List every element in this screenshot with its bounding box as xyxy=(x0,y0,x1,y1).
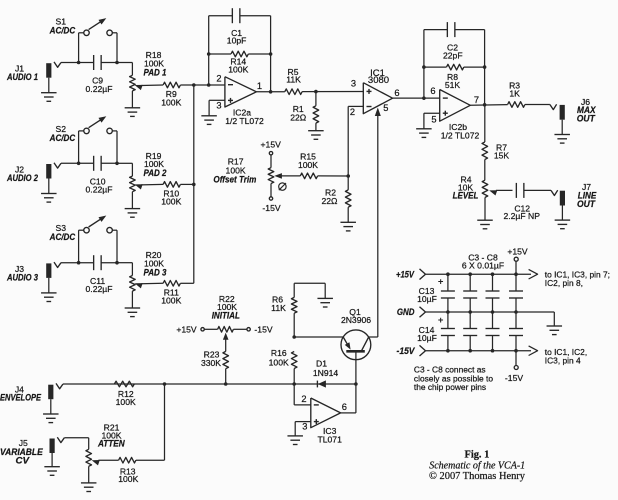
node R14-left xyxy=(207,52,211,56)
switch S3 AC/DC xyxy=(78,230,80,263)
ground under R18 xyxy=(125,107,140,109)
ground R6 xyxy=(317,297,333,299)
node col2 rails xyxy=(468,272,472,276)
node R23-bus xyxy=(224,382,228,386)
svg-text:-15V: -15V xyxy=(505,373,523,383)
svg-text:3080: 3080 xyxy=(368,75,389,86)
svg-text:3: 3 xyxy=(216,101,221,111)
svg-text:AC/DC: AC/DC xyxy=(49,133,76,143)
ground under R2 xyxy=(340,221,356,223)
wire IC2a pin3 to ground xyxy=(209,99,225,101)
svg-text:5: 5 xyxy=(383,103,388,113)
svg-text:15K: 15K xyxy=(494,151,510,161)
wire jack to node xyxy=(61,162,94,164)
jack J1 (AUDIO 1) xyxy=(46,63,51,77)
svg-text:+15V: +15V xyxy=(261,140,282,150)
svg-text:100K: 100K xyxy=(161,97,181,107)
node IC2a-out xyxy=(269,90,273,94)
chevron -15V rail xyxy=(420,345,426,356)
ground under J4 xyxy=(50,399,52,414)
svg-text:10µF: 10µF xyxy=(417,333,437,343)
resistor R7 15K xyxy=(484,105,486,142)
capacitor column C13/C14 lower xyxy=(447,312,449,329)
pot R19 (PAD 2) xyxy=(117,162,132,164)
capacitor C11 0.22µF xyxy=(93,255,95,270)
capacitor C9 0.22µF xyxy=(93,55,95,70)
wire IC2b pin5 to ground xyxy=(424,112,440,114)
jack J6 MAX OUT xyxy=(560,105,565,120)
pot R20 (PAD 3) xyxy=(117,262,132,264)
svg-text:OUT: OUT xyxy=(577,113,596,123)
svg-text:GND: GND xyxy=(397,307,415,317)
svg-text:100K: 100K xyxy=(228,64,248,74)
node J3-b xyxy=(115,261,119,265)
resistor R9 100K xyxy=(163,82,180,88)
wire IC2a output xyxy=(256,91,284,93)
svg-text:-15V: -15V xyxy=(254,325,272,335)
wire IC2b output xyxy=(470,104,507,107)
svg-text:1K: 1K xyxy=(509,89,520,99)
svg-text:PAD 1: PAD 1 xyxy=(144,67,167,77)
ground under J3 xyxy=(48,278,50,293)
svg-text:AUDIO 2: AUDIO 2 xyxy=(6,173,38,183)
node R15/R2 xyxy=(346,174,350,178)
resistor R3 1K xyxy=(508,102,525,108)
resistor R2 22ohm xyxy=(347,176,349,190)
svg-text:TL071: TL071 xyxy=(318,434,343,444)
svg-text:OUT: OUT xyxy=(577,199,596,209)
svg-text:+15V: +15V xyxy=(176,325,197,335)
pot R17 100K Offset Trim xyxy=(269,152,272,155)
svg-text:100K: 100K xyxy=(298,160,318,170)
svg-text:2: 2 xyxy=(350,107,355,117)
svg-text:1/2 TL072: 1/2 TL072 xyxy=(441,131,480,141)
svg-text:CV: CV xyxy=(16,455,31,465)
svg-text:22Ω: 22Ω xyxy=(290,112,307,122)
capacitor column bypass B upper xyxy=(492,274,494,291)
wire R13 to bus node xyxy=(136,459,165,461)
wire R15 to node xyxy=(318,175,349,177)
ground under R1 xyxy=(308,130,324,132)
wire cap to node xyxy=(101,62,117,64)
wiper arrow R17 xyxy=(274,173,282,179)
wire C1 right leg xyxy=(270,16,272,92)
svg-text:3: 3 xyxy=(351,79,356,89)
node J1-b xyxy=(115,61,119,65)
pot R18 (PAD 1) xyxy=(117,62,132,64)
ground under R21 xyxy=(81,482,97,484)
resistor R16 100K xyxy=(291,352,297,369)
svg-text:the chip power pins: the chip power pins xyxy=(414,382,486,392)
svg-text:LEVEL: LEVEL xyxy=(453,191,479,201)
capacitor column bypass A lower xyxy=(469,312,471,329)
svg-text:AC/DC: AC/DC xyxy=(49,25,76,35)
ground IC2b xyxy=(416,128,432,130)
jack J7 LINE OUT xyxy=(560,191,565,206)
resistor R10 100K xyxy=(163,182,180,188)
wire summing bus vertical xyxy=(193,85,195,283)
node J2-a xyxy=(77,162,81,166)
wire jack to node xyxy=(61,262,94,264)
wire R5 to IC1 xyxy=(302,91,363,93)
node R16-bus xyxy=(292,382,296,386)
node IC2b-out xyxy=(483,103,487,107)
resistor R8 51K xyxy=(424,66,447,68)
node Q1-base-bus xyxy=(354,382,358,386)
svg-text:2N3906: 2N3906 xyxy=(341,315,371,325)
svg-text:3: 3 xyxy=(302,422,307,432)
svg-text:5: 5 xyxy=(431,115,436,125)
svg-text:11K: 11K xyxy=(286,75,301,85)
node R8-left xyxy=(422,65,426,69)
resistor R13 100K xyxy=(119,457,136,463)
wire R11 to bus xyxy=(180,282,193,284)
jack J3 (AUDIO 3) xyxy=(46,263,51,278)
capacitor column bypass B lower xyxy=(492,312,494,329)
svg-text:100K: 100K xyxy=(116,397,136,407)
svg-text:© 2007 Thomas Henry: © 2007 Thomas Henry xyxy=(429,471,526,482)
svg-text:AUDIO 1: AUDIO 1 xyxy=(6,72,38,82)
node col3 rails xyxy=(491,272,495,276)
wiper arrow R22 xyxy=(223,333,229,340)
svg-text:0.22µF: 0.22µF xyxy=(86,84,113,94)
jack J5 VARIABLE CV xyxy=(50,439,55,454)
capacitor column C13/C14 upper xyxy=(447,274,449,291)
svg-text:IC2, pin 8,: IC2, pin 8, xyxy=(545,278,583,288)
svg-text:Schematic of the VCA-1: Schematic of the VCA-1 xyxy=(429,460,525,471)
pot R22 100K INITIAL xyxy=(201,328,204,331)
wire to Q1 xyxy=(294,336,343,338)
svg-text:6: 6 xyxy=(342,402,347,412)
node J3-a xyxy=(77,261,81,265)
ground under R4 xyxy=(477,219,493,221)
jack J4 ENVELOPE xyxy=(48,385,53,400)
wiper arrow R4 xyxy=(489,190,497,195)
node col1 rails xyxy=(446,272,450,276)
svg-text:ENVELOPE: ENVELOPE xyxy=(0,392,42,402)
svg-text:1: 1 xyxy=(257,81,262,91)
capacitor column bypass C upper xyxy=(515,274,517,291)
node R12/R13 xyxy=(163,382,167,386)
resistor R5 11K xyxy=(285,89,302,95)
svg-text:Offset Trim: Offset Trim xyxy=(213,175,256,185)
svg-text:0.22µF: 0.22µF xyxy=(86,185,113,195)
svg-text:AC/DC: AC/DC xyxy=(49,232,76,242)
terminal +15V xyxy=(515,261,517,274)
chevron +15V rail xyxy=(420,269,426,280)
resistor R23 330K xyxy=(223,351,229,368)
wire C12 to J7 xyxy=(524,189,551,191)
jack J2 (AUDIO 2) xyxy=(46,164,51,179)
ground under J1 xyxy=(48,78,50,93)
capacitor C1 10pF xyxy=(209,15,233,17)
node Q1-emitter xyxy=(292,335,296,339)
svg-text:Fig. 1: Fig. 1 xyxy=(464,449,489,460)
svg-text:6: 6 xyxy=(430,86,435,96)
op-amp IC1 3080 xyxy=(363,83,392,114)
svg-text:1N914: 1N914 xyxy=(313,368,339,378)
node R1-top xyxy=(314,90,318,94)
wire IC1-out up leg xyxy=(423,30,425,99)
wire R3 to J6 xyxy=(525,104,550,106)
wiper arrow R19 xyxy=(135,184,143,189)
ground under J5 xyxy=(51,453,53,467)
wire IC1 output xyxy=(393,97,440,99)
op-amp IC3 TL071 xyxy=(293,384,295,405)
wire IC3 output to bus xyxy=(341,412,356,414)
resistor R6 11K xyxy=(293,283,295,297)
svg-text:PAD 2: PAD 2 xyxy=(144,168,167,178)
svg-text:+15V: +15V xyxy=(396,269,415,279)
ground IC3 xyxy=(287,435,303,437)
svg-text:100K: 100K xyxy=(269,358,289,368)
switch S1 AC/DC xyxy=(78,33,80,63)
capacitor column bypass A upper xyxy=(469,274,471,291)
resistor R15 100K xyxy=(300,173,317,179)
wire R9 to node xyxy=(180,84,225,86)
svg-text:100K: 100K xyxy=(161,197,181,207)
wire Q1 base down xyxy=(355,351,357,384)
capacitor column bypass C lower xyxy=(515,312,517,329)
wiper arrow R18 xyxy=(135,85,143,90)
svg-text:PAD 3: PAD 3 xyxy=(144,268,167,278)
wire -15V rail xyxy=(426,350,531,352)
svg-text:+15V: +15V xyxy=(507,246,528,256)
svg-text:22pF: 22pF xyxy=(443,50,463,60)
resistor R1 22ohm xyxy=(315,92,317,106)
svg-text:-15V: -15V xyxy=(397,346,416,356)
svg-text:10pF: 10pF xyxy=(227,36,247,46)
pot R4 10K LEVEL xyxy=(484,160,486,181)
node J1-a xyxy=(77,61,81,65)
ground under J6 xyxy=(561,120,563,135)
svg-text:6 X 0.01µF: 6 X 0.01µF xyxy=(462,261,504,271)
svg-text:IC3, pin 4: IC3, pin 4 xyxy=(545,355,581,365)
svg-text:0.22µF: 0.22µF xyxy=(86,284,113,294)
switch S2 AC/DC xyxy=(78,131,80,163)
capacitor C2 22pF xyxy=(424,29,448,31)
wire C2 right leg xyxy=(484,30,486,105)
resistor R12 100K xyxy=(114,381,134,387)
svg-text:2: 2 xyxy=(301,394,306,404)
chevron GND rail xyxy=(420,307,426,318)
svg-text:10µF: 10µF xyxy=(417,294,437,304)
wire IC3 pin3 to ground xyxy=(295,421,311,423)
ground IC2a xyxy=(201,115,217,117)
wire main CV bus xyxy=(63,383,294,385)
svg-text:-15V: -15V xyxy=(262,203,280,213)
resistor R14 100K xyxy=(209,53,231,55)
wire Q1 collector to IC1 pin5 xyxy=(377,113,379,338)
node sum-1 xyxy=(192,83,196,87)
ground under J2 xyxy=(48,179,50,194)
wiper arrow R20 xyxy=(135,283,143,288)
svg-text:330K: 330K xyxy=(201,358,221,368)
diode D1 1N914 xyxy=(294,383,356,385)
ground under J7 xyxy=(561,206,563,221)
wire GND rail xyxy=(426,311,555,313)
svg-text:+: + xyxy=(438,276,444,287)
wire IC1 pin2 to node R15/R2 xyxy=(348,105,363,107)
svg-text:+: + xyxy=(438,315,444,326)
svg-text:6: 6 xyxy=(394,88,399,98)
op-amp IC2b 1/2 TL072 xyxy=(440,90,471,122)
svg-text:INITIAL: INITIAL xyxy=(212,311,240,321)
node R8-right xyxy=(483,65,487,69)
wire cap to node xyxy=(101,262,117,264)
wire R6 top to ground xyxy=(294,282,325,284)
svg-text:R16: R16 xyxy=(271,348,287,358)
op-amp IC2a 1/2 TL072 xyxy=(225,77,257,107)
wire jack to node xyxy=(61,62,94,64)
transistor Q1 2N3906 xyxy=(341,330,371,360)
svg-text:100K: 100K xyxy=(161,296,181,306)
wire +15V rail xyxy=(426,273,531,275)
node sum-2 xyxy=(192,183,196,187)
node R14-right xyxy=(269,52,273,56)
svg-text:AUDIO 3: AUDIO 3 xyxy=(6,272,38,282)
wire R10 to bus xyxy=(180,183,193,185)
ground under R20 xyxy=(125,307,140,309)
terminal -15V xyxy=(515,351,517,366)
screwdriver slot R17 xyxy=(279,183,286,190)
ground under R19 xyxy=(125,208,140,210)
resistor R11 100K xyxy=(163,281,180,287)
wire cap to node xyxy=(101,162,117,164)
wiper arrow R21 xyxy=(92,460,100,465)
node fb-tap xyxy=(207,83,211,87)
pot R21 100K ATTEN xyxy=(64,437,88,439)
svg-text:ATTEN: ATTEN xyxy=(97,438,125,448)
svg-text:1/2 TL072: 1/2 TL072 xyxy=(225,116,264,126)
node IC1-out xyxy=(422,96,426,100)
ground GND rail xyxy=(553,312,555,326)
svg-text:51K: 51K xyxy=(445,80,461,90)
wire C1 left leg xyxy=(208,16,210,85)
svg-text:100K: 100K xyxy=(118,474,138,484)
svg-text:D1: D1 xyxy=(316,359,327,369)
node col4 rails xyxy=(514,272,518,276)
svg-text:2: 2 xyxy=(216,74,221,84)
svg-text:2.2µF NP: 2.2µF NP xyxy=(503,211,540,221)
capacitor C10 0.22µF xyxy=(93,156,95,171)
node J2-b xyxy=(115,162,119,166)
svg-text:22Ω: 22Ω xyxy=(322,196,339,206)
svg-text:11K: 11K xyxy=(271,303,286,313)
capacitor C12 2.2uF NP xyxy=(515,183,517,198)
svg-text:7: 7 xyxy=(474,95,479,105)
